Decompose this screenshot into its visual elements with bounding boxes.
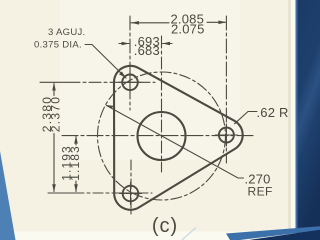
centerline horizontal through hole A (40, 81, 155, 83)
centerline vertical through hole A (top-left) (129, 16, 131, 110)
svg-text:(c): (c) (152, 215, 178, 237)
svg-text:2.075: 2.075 (171, 21, 205, 36)
center hole (138, 112, 186, 160)
arrow 2.380 top (52, 83, 56, 91)
dimension 2.085 line right segment (207, 21, 225, 23)
navy bottom-right bar (249, 230, 320, 240)
centerline vertical through hole C (right) (225, 16, 227, 163)
arrow .693 right (outside) (162, 42, 170, 46)
centerline horizontal through hole B (48, 192, 152, 194)
dimension 1.193 line lower segment (75, 181, 77, 192)
plate outline (rounded triangle) (114, 66, 243, 210)
hole B centerline cross (120, 183, 142, 205)
leader for .62 R (235, 112, 258, 124)
arrow 1.193 bottom (74, 184, 78, 192)
svg-text:2.370: 2.370 (48, 96, 62, 133)
centerline vertical through center hole (161, 36, 163, 172)
arrow leader .270 (106, 105, 114, 109)
paper bright edge (291, 0, 296, 240)
hole C right (219, 128, 234, 143)
dimension 1.193 line upper segment (75, 137, 77, 146)
faint blue diagonal by (c) (182, 228, 196, 240)
hole A top-left (122, 75, 138, 91)
steel edge line (296, 0, 298, 240)
leader for 0.375 DIA (85, 45, 126, 79)
svg-text:.62 R: .62 R (257, 105, 289, 120)
svg-text:0.375 DIA.: 0.375 DIA. (34, 40, 82, 51)
dimension 2.085 line left segment (131, 22, 169, 24)
arrow .693 left (outside) (122, 42, 130, 46)
centerline vertical through hole B (bottom-left) (130, 160, 132, 216)
svg-text:1.183: 1.183 (68, 145, 82, 181)
arrow leader 0.375 (119, 71, 126, 78)
arrow 2.380 bottom (52, 184, 56, 192)
arrow 1.193 top (74, 136, 78, 144)
navy side bar (298, 0, 320, 240)
dimension .693 right arrow tail (163, 43, 173, 45)
bolt circle (dash-dot) (98, 72, 226, 200)
dimension 2.380 line lower segment (53, 134, 55, 192)
white bottom strip (0, 232, 252, 240)
blue corner wedge (0, 151, 16, 240)
arrow 2.085 right (218, 21, 226, 25)
svg-text:.683: .683 (134, 43, 160, 58)
hole C centerline cross (215, 124, 237, 146)
svg-text:REF: REF (248, 185, 273, 199)
hole B bottom-left (123, 186, 139, 202)
dimension .693 left arrow tail (119, 43, 129, 45)
hole A centerline cross (119, 71, 141, 93)
paper edge shadow (288, 0, 291, 240)
arrow 2.085 left (131, 21, 139, 25)
steel-blue bottom edge stripe (226, 226, 320, 240)
svg-text:3 AGUJ.: 3 AGUJ. (48, 27, 85, 38)
dimension 2.380 line upper segment (53, 84, 55, 96)
leader for .270 REF (107, 106, 244, 179)
centerline horizontal through center hole and hole C (62, 135, 255, 137)
